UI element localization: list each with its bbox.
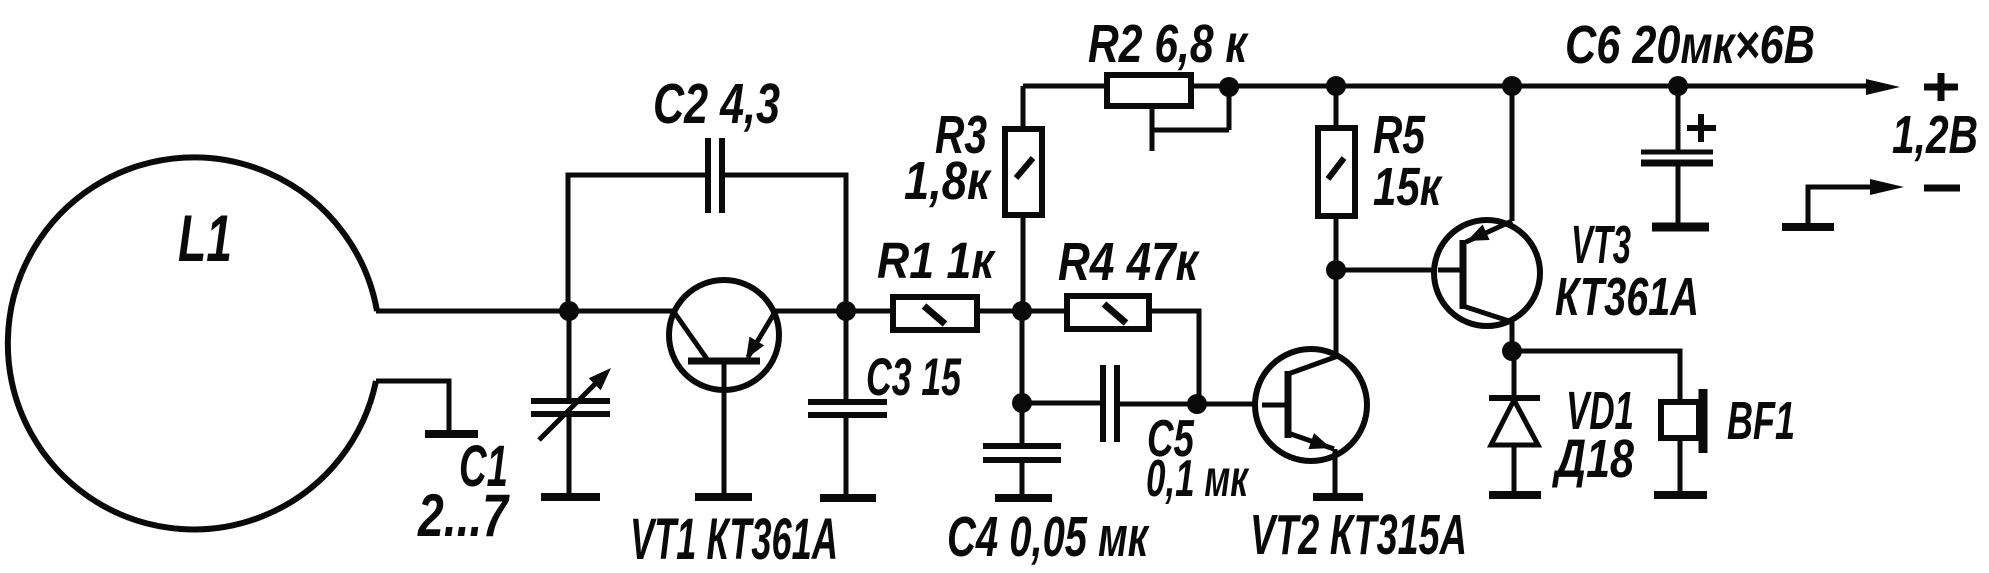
ground (C4 bottom) xyxy=(995,494,1052,502)
svg-text:С3 15: С3 15 xyxy=(866,348,962,407)
wire VT3 base xyxy=(1336,268,1463,273)
svg-text:КТ361А: КТ361А xyxy=(1555,267,1699,327)
node junction C6 top xyxy=(1668,76,1688,96)
wire R3 top to R2 xyxy=(1023,84,1107,89)
resistor R1 xyxy=(893,297,977,330)
svg-text:R2 6,8 к: R2 6,8 к xyxy=(1088,14,1249,74)
wire minus output xyxy=(1808,187,1872,227)
resistor R5 xyxy=(1318,86,1355,270)
capacitor C1 variable xyxy=(531,311,611,494)
ground (C1 bottom) xyxy=(541,493,600,501)
svg-text:R5: R5 xyxy=(1373,105,1426,165)
transistor VT2 xyxy=(1255,349,1367,493)
plus terminal symbol xyxy=(1924,73,1958,101)
ground (VT1 base) xyxy=(695,493,752,501)
svg-text:15к: 15к xyxy=(1373,157,1443,217)
svg-text:VT1 КТ361А: VT1 КТ361А xyxy=(630,507,838,572)
wire C2 branch left xyxy=(568,175,707,311)
wire L1 lower lead xyxy=(376,381,449,431)
capacitor C6 electrolytic xyxy=(1641,86,1716,223)
node junction VT1 right xyxy=(836,301,856,321)
node junction R1/R3/R4 xyxy=(1012,301,1032,321)
node junction VT3 emitter rail xyxy=(1502,76,1522,96)
node junction C4/C5 xyxy=(1012,393,1032,413)
svg-text:2...7: 2...7 xyxy=(417,482,510,549)
svg-text:С4 0,05 мк: С4 0,05 мк xyxy=(947,505,1150,569)
ground (C6 negative common bar) xyxy=(1652,223,1709,232)
wire C4 branch xyxy=(1020,311,1025,444)
svg-text:R1 1к: R1 1к xyxy=(877,232,996,289)
svg-text:С2 4,3: С2 4,3 xyxy=(653,72,780,136)
diode VD1 xyxy=(1489,351,1540,491)
svg-text:0,1 мк: 0,1 мк xyxy=(1146,450,1250,508)
node junction C5/R4/VT2 base xyxy=(1187,394,1207,414)
capacitor C2 xyxy=(708,138,722,213)
node junction R2 right xyxy=(1219,77,1239,97)
transistor VT3 xyxy=(1434,86,1540,351)
wire VT2 base xyxy=(1197,402,1260,407)
svg-text:С6 20мк×6В: С6 20мк×6В xyxy=(1565,15,1815,75)
wire arrowhead plus output xyxy=(1866,79,1900,95)
transistor VT1 xyxy=(669,280,779,494)
capacitor C5 xyxy=(1022,365,1197,442)
svg-text:L1: L1 xyxy=(178,201,232,275)
minus terminal symbol xyxy=(1924,185,1960,192)
svg-text:R4 47к: R4 47к xyxy=(1058,232,1200,292)
ground (VD1 anode) xyxy=(1489,491,1541,499)
ground (minus common bar) xyxy=(1782,223,1834,231)
ground (L1 lower terminal) xyxy=(425,430,478,438)
capacitor C3 xyxy=(808,313,887,494)
earphone BF1 xyxy=(1661,389,1703,491)
inductor L1 loop antenna xyxy=(8,157,377,529)
wire L1 upper lead to R1 xyxy=(376,309,893,314)
wire arrowhead minus output xyxy=(1870,179,1904,195)
node junction R5 top xyxy=(1326,76,1346,96)
resistor R4 xyxy=(1022,296,1199,404)
ground (BF1 bottom) xyxy=(1654,491,1707,499)
node junction R5/VT2 collector/VT3 base xyxy=(1326,260,1346,280)
svg-text:VT3: VT3 xyxy=(1571,215,1631,275)
wire R1 to node xyxy=(977,309,1023,314)
ground (VT2 emitter) xyxy=(1313,493,1363,501)
svg-text:BF1: BF1 xyxy=(1727,391,1795,451)
resistor R2 trimmer xyxy=(1107,75,1229,151)
svg-text:VT2 КТ315А: VT2 КТ315А xyxy=(1250,503,1467,567)
wire top supply rail xyxy=(1229,84,1870,89)
svg-text:Д18: Д18 xyxy=(1552,429,1634,489)
svg-text:1,8к: 1,8к xyxy=(904,151,992,211)
node junction at C1 top xyxy=(559,301,579,321)
capacitor C4 xyxy=(983,446,1061,494)
resistor R3 xyxy=(1005,86,1042,311)
ground (C3 bottom) xyxy=(820,494,876,502)
svg-text:1,2В: 1,2В xyxy=(1892,105,1978,165)
wire VT3 collector to BF1 xyxy=(1512,351,1680,402)
wire VT2 collector xyxy=(1334,270,1339,357)
node junction VT3 collector xyxy=(1502,341,1522,361)
wire C2 branch right xyxy=(723,175,846,311)
